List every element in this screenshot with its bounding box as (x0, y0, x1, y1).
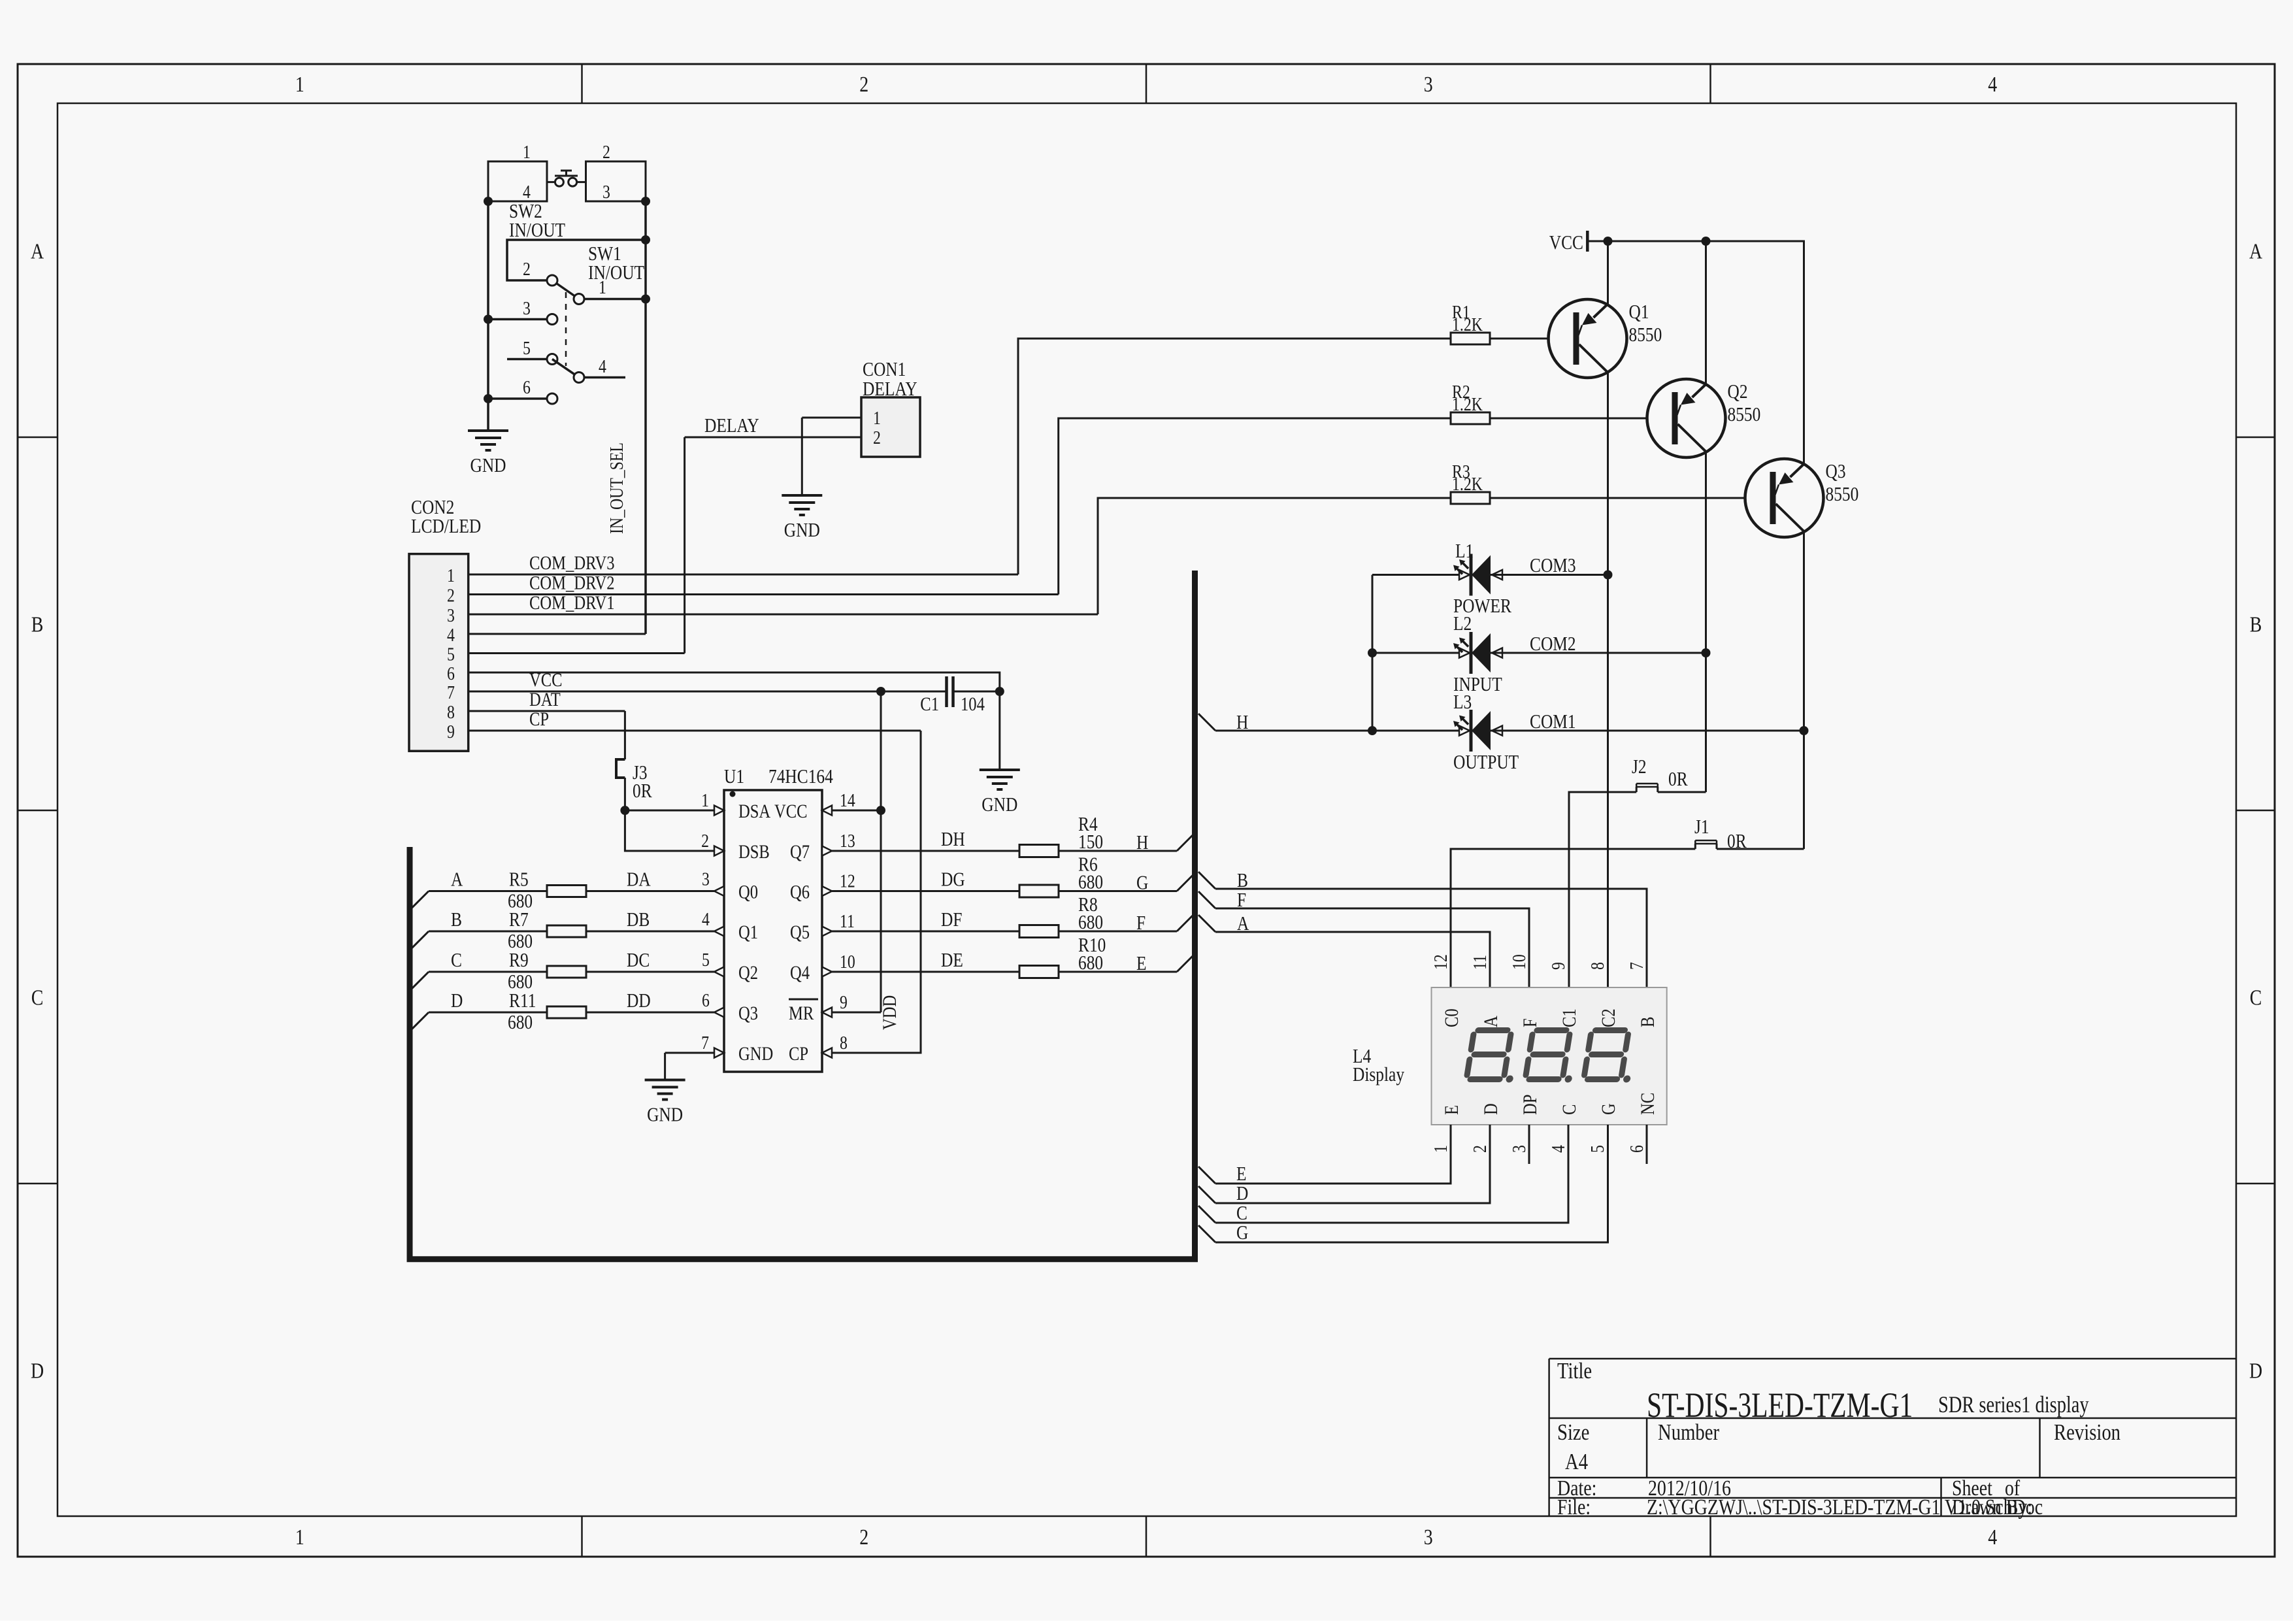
svg-text:J2: J2 (1632, 756, 1647, 778)
svg-text:680: 680 (1078, 952, 1103, 974)
svg-text:L3: L3 (1453, 691, 1472, 714)
svg-text:Q3: Q3 (738, 1003, 758, 1024)
svg-text:74HC164: 74HC164 (768, 766, 833, 788)
svg-text:R7: R7 (509, 909, 529, 931)
svg-text:DF: DF (941, 909, 962, 931)
svg-text:F: F (1237, 889, 1246, 912)
svg-text:DSA: DSA (738, 801, 770, 822)
svg-text:J1: J1 (1694, 816, 1709, 838)
svg-text:L1: L1 (1455, 540, 1474, 563)
svg-text:4: 4 (1988, 1524, 1997, 1549)
svg-text:C: C (451, 950, 462, 972)
svg-text:L2: L2 (1453, 613, 1472, 635)
svg-text:2: 2 (859, 1524, 868, 1549)
svg-text:1: 1 (873, 407, 881, 429)
svg-text:2: 2 (447, 584, 455, 606)
svg-text:5: 5 (447, 643, 455, 665)
svg-text:A: A (2249, 239, 2263, 263)
svg-text:D: D (2249, 1358, 2262, 1383)
svg-text:9: 9 (447, 721, 455, 742)
svg-text:OUTPUT: OUTPUT (1453, 752, 1519, 774)
svg-text:F: F (1519, 1018, 1541, 1027)
svg-text:6: 6 (1626, 1145, 1647, 1153)
svg-text:G: G (1136, 872, 1148, 894)
svg-text:Q4: Q4 (790, 962, 810, 984)
svg-text:D: D (1480, 1103, 1502, 1115)
svg-text:G: G (1236, 1222, 1248, 1244)
svg-text:6: 6 (702, 989, 710, 1011)
svg-text:150: 150 (1078, 831, 1103, 853)
svg-text:680: 680 (1078, 871, 1103, 893)
svg-text:C: C (1236, 1202, 1247, 1225)
svg-text:0R: 0R (1727, 831, 1747, 853)
svg-text:7: 7 (701, 1032, 709, 1053)
svg-text:6: 6 (523, 376, 531, 398)
svg-text:B: B (1637, 1017, 1658, 1027)
svg-text:Number: Number (1658, 1419, 1719, 1444)
svg-text:Q1: Q1 (1629, 301, 1649, 323)
svg-text:IN/OUT: IN/OUT (509, 220, 565, 242)
svg-text:Size: Size (1557, 1419, 1589, 1444)
svg-text:1: 1 (295, 71, 305, 96)
svg-text:D: D (451, 990, 463, 1012)
svg-text:1.2K: 1.2K (1452, 473, 1483, 495)
svg-text:COM_DRV1: COM_DRV1 (529, 592, 615, 614)
svg-text:3: 3 (602, 181, 610, 203)
svg-text:11: 11 (1469, 955, 1491, 970)
svg-text:Q0: Q0 (738, 881, 758, 903)
svg-text:COM_DRV3: COM_DRV3 (529, 552, 615, 574)
svg-text:DSB: DSB (738, 841, 770, 863)
svg-text:9: 9 (1547, 962, 1569, 970)
svg-text:H: H (1236, 712, 1248, 734)
svg-text:GND: GND (784, 520, 820, 542)
svg-text:Q3: Q3 (1826, 461, 1846, 483)
svg-text:9: 9 (840, 991, 848, 1013)
svg-text:5: 5 (1587, 1145, 1608, 1153)
svg-text:Title: Title (1557, 1357, 1592, 1383)
svg-text:2: 2 (873, 427, 881, 448)
svg-text:A: A (1480, 1016, 1502, 1027)
svg-text:GND: GND (470, 455, 506, 477)
svg-text:7: 7 (1626, 962, 1647, 970)
svg-text:GND: GND (982, 794, 1017, 816)
svg-text:4: 4 (523, 181, 531, 203)
svg-text:VCC: VCC (1549, 232, 1583, 254)
svg-text:10: 10 (1508, 954, 1530, 970)
svg-text:3: 3 (447, 605, 455, 626)
svg-text:4: 4 (1988, 71, 1997, 96)
svg-text:3: 3 (1508, 1145, 1530, 1153)
svg-text:680: 680 (508, 1012, 533, 1034)
svg-text:0R: 0R (633, 780, 652, 803)
svg-text:12: 12 (840, 870, 855, 891)
svg-text:IN_OUT_SEL: IN_OUT_SEL (606, 442, 627, 534)
svg-text:10: 10 (840, 951, 855, 972)
svg-text:1.2K: 1.2K (1452, 314, 1483, 335)
svg-text:D: D (31, 1358, 44, 1383)
svg-text:1.2K: 1.2K (1452, 393, 1483, 415)
svg-text:8550: 8550 (1728, 404, 1761, 426)
svg-text:DE: DE (941, 950, 963, 972)
svg-text:D: D (1236, 1183, 1248, 1205)
svg-text:GND: GND (647, 1104, 683, 1126)
svg-text:12: 12 (1430, 954, 1451, 970)
svg-text:2: 2 (1469, 1145, 1491, 1153)
svg-text:R11: R11 (509, 990, 536, 1012)
svg-text:DAT: DAT (529, 689, 561, 710)
svg-text:Q7: Q7 (790, 841, 810, 863)
svg-text:DD: DD (627, 990, 651, 1012)
svg-text:Display: Display (1353, 1064, 1405, 1086)
svg-text:Q6: Q6 (790, 881, 810, 903)
svg-text:1: 1 (523, 141, 531, 163)
svg-text:3: 3 (702, 868, 710, 889)
svg-text:CON1: CON1 (863, 359, 906, 381)
svg-text:3: 3 (1424, 71, 1433, 96)
svg-text:104: 104 (961, 693, 985, 715)
svg-text:File:: File: (1557, 1494, 1591, 1519)
svg-text:4: 4 (1547, 1145, 1569, 1153)
svg-text:A: A (31, 239, 44, 263)
svg-text:F: F (1136, 912, 1146, 935)
svg-text:DELAY: DELAY (704, 415, 759, 437)
svg-text:IN/OUT: IN/OUT (588, 262, 644, 284)
svg-text:A: A (1237, 913, 1249, 935)
svg-text:B: B (2250, 612, 2262, 637)
svg-text:B: B (451, 909, 462, 931)
svg-text:Q5: Q5 (790, 921, 810, 943)
svg-text:CP: CP (529, 708, 549, 730)
svg-text:GND: GND (738, 1043, 773, 1065)
svg-text:Q2: Q2 (1728, 381, 1748, 403)
svg-text:11: 11 (840, 910, 855, 932)
svg-text:8: 8 (840, 1032, 848, 1053)
svg-text:E: E (1441, 1105, 1462, 1115)
svg-text:1: 1 (701, 789, 709, 811)
svg-text:1: 1 (295, 1524, 305, 1549)
svg-text:COM_DRV2: COM_DRV2 (529, 572, 615, 593)
svg-text:4: 4 (599, 356, 606, 377)
svg-text:3: 3 (1424, 1524, 1433, 1549)
svg-text:A4: A4 (1565, 1448, 1588, 1474)
svg-text:4: 4 (702, 908, 710, 930)
svg-text:C: C (31, 985, 44, 1010)
svg-text:6: 6 (447, 663, 455, 684)
svg-text:COM1: COM1 (1530, 711, 1576, 733)
svg-text:DG: DG (941, 869, 965, 891)
svg-text:2: 2 (523, 258, 531, 280)
svg-text:DC: DC (627, 950, 650, 972)
svg-text:5: 5 (702, 949, 710, 970)
svg-text:SDR series1 display: SDR series1 display (1938, 1392, 2089, 1418)
svg-text:H: H (1136, 832, 1148, 854)
svg-text:COM3: COM3 (1530, 555, 1576, 577)
svg-text:VDD: VDD (879, 995, 900, 1030)
svg-text:B: B (1237, 870, 1248, 892)
svg-text:3: 3 (523, 297, 531, 319)
svg-text:C: C (2250, 985, 2262, 1010)
svg-text:E: E (1136, 953, 1147, 975)
svg-text:8: 8 (447, 701, 455, 723)
svg-text:Q1: Q1 (738, 921, 758, 943)
svg-text:14: 14 (840, 789, 855, 811)
svg-text:Drawn By:: Drawn By: (1952, 1494, 2032, 1519)
svg-text:NC: NC (1637, 1093, 1658, 1115)
svg-text:VCC: VCC (529, 669, 563, 691)
svg-text:LCD/LED: LCD/LED (411, 516, 481, 538)
svg-text:R9: R9 (509, 950, 529, 972)
svg-text:C: C (1559, 1104, 1580, 1115)
svg-text:CP: CP (789, 1043, 808, 1065)
svg-text:680: 680 (1078, 912, 1103, 934)
svg-text:DB: DB (627, 909, 650, 931)
svg-text:C1: C1 (920, 693, 939, 715)
svg-text:B: B (31, 612, 44, 637)
svg-text:R5: R5 (509, 869, 529, 891)
svg-text:2: 2 (602, 141, 610, 163)
svg-text:5: 5 (523, 337, 531, 359)
svg-text:U1: U1 (724, 766, 744, 788)
svg-text:DH: DH (941, 829, 965, 851)
svg-text:A: A (451, 869, 463, 891)
svg-text:1: 1 (1430, 1145, 1451, 1153)
svg-text:8: 8 (1587, 962, 1608, 970)
svg-text:4: 4 (447, 624, 455, 646)
svg-text:C2: C2 (1598, 1008, 1619, 1027)
svg-text:C1: C1 (1559, 1008, 1580, 1027)
svg-text:VCC: VCC (774, 801, 808, 822)
svg-text:E: E (1236, 1163, 1247, 1185)
svg-text:7: 7 (447, 682, 455, 703)
svg-text:0R: 0R (1668, 769, 1688, 791)
svg-text:DA: DA (627, 869, 651, 891)
svg-text:13: 13 (840, 830, 855, 852)
svg-text:COM2: COM2 (1530, 633, 1576, 655)
svg-text:8550: 8550 (1826, 484, 1859, 506)
svg-text:1: 1 (599, 276, 606, 298)
svg-text:8550: 8550 (1629, 324, 1662, 346)
svg-text:MR: MR (789, 1003, 814, 1024)
svg-text:G: G (1598, 1103, 1619, 1115)
svg-text:Q2: Q2 (738, 962, 758, 984)
svg-text:C0: C0 (1441, 1008, 1462, 1027)
svg-text:2: 2 (859, 71, 868, 96)
svg-text:2: 2 (701, 830, 709, 852)
svg-text:Revision: Revision (2054, 1419, 2120, 1444)
svg-text:1: 1 (447, 565, 455, 586)
svg-text:DP: DP (1519, 1095, 1541, 1115)
